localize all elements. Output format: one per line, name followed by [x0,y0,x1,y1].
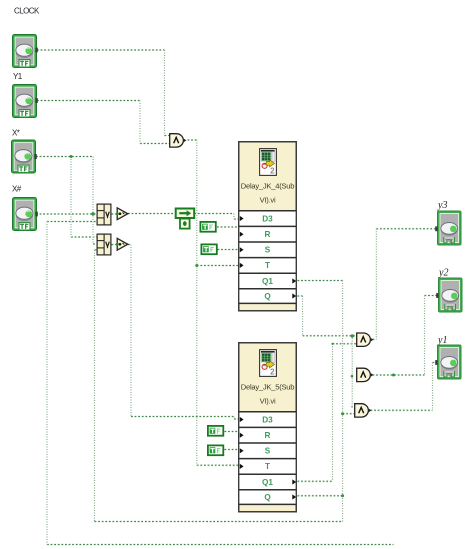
svg-text:Delay_JK_4(Sub: Delay_JK_4(Sub [241,182,295,191]
svg-text:Delay_JK_5(Sub: Delay_JK_5(Sub [241,383,295,392]
svg-text:X*: X* [12,129,20,138]
svg-text:VI).vi: VI).vi [260,397,276,406]
svg-text:y3: y3 [437,200,447,211]
svg-text:y2: y2 [438,268,448,279]
svg-text:X#: X# [12,185,22,194]
svg-text:CLOCK: CLOCK [14,7,40,16]
svg-text:Y1: Y1 [13,72,23,81]
svg-text:y1: y1 [437,335,447,346]
svg-text:VI).vi: VI).vi [260,196,276,205]
